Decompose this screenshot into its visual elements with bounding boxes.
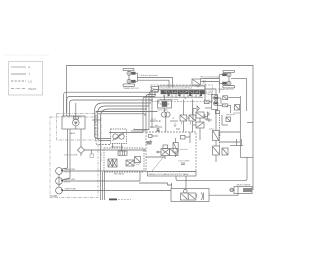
swing relief upper [223,96,241,100]
legend line PILOT [11,87,36,91]
wire pump suction lines [59,129,70,187]
svg-text:boom arm bucket swing: boom arm bucket swing [160,98,178,101]
pilot dashed vertical [219,112,221,146]
wire tank top lines to right [96,112,158,114]
pilot valve blocks mid right [180,98,196,132]
swing tilt fan supply valve box [146,132,196,176]
marks below swing motor [215,110,219,114]
pump P3 gear [56,187,77,194]
valve bank drain ticks [152,95,203,101]
swing brake valve column [196,112,220,141]
counterbalance valve RH [192,79,206,87]
legend line LS [11,79,32,83]
wire swing column [200,84,216,162]
relief valve in supply box [173,138,188,157]
wire frame top [67,66,254,158]
svg-text:HYDRAULIC CIRCUIT DIAGRAM: HYDRAULIC CIRCUIT DIAGRAM [4,53,50,57]
svg-text:P: P [29,65,31,69]
svg-text:(NO.2): (NO.2) [65,181,71,183]
legend box [9,62,43,96]
node PUMP label [51,196,58,198]
svg-text:LH travel (forward): LH travel (forward) [140,74,158,77]
wire travel straight connections [165,95,166,132]
wire bottom connections [171,157,247,195]
mid pilot labels [150,118,178,127]
pump P1 [56,168,76,175]
bank end spring [206,90,213,94]
legend line T [11,72,31,76]
wire pilot bundle right-side drops [95,103,152,200]
wire mid horizontals [92,114,172,186]
orifice pair mid [156,129,180,132]
travel straight valve [158,100,172,112]
wire LH travel to valve [138,78,173,88]
svg-text:LH travel boom arm bucket: LH travel boom arm bucket swing RH trave… [160,87,193,90]
legend line P [11,65,31,69]
pump P2 [56,178,76,185]
swing motor [212,95,235,117]
node LH travel line label [140,74,158,77]
fan supply valve block [104,144,144,176]
tank boundary dash-dot [57,114,96,141]
wire pilot bundle horizontals to left [64,91,158,117]
svg-text:(NO.1): (NO.1) [65,171,71,173]
svg-text:FAN VALVE: FAN VALVE [114,173,125,176]
wire right verticals [219,79,253,191]
svg-text:pilot: pilot [155,124,159,127]
valve bank spools [161,90,205,96]
small gauge port row [205,115,231,125]
travel motor LH [123,68,139,90]
svg-text:PILOT: PILOT [29,87,37,91]
svg-text:T NOT USED: T NOT USED [178,161,190,163]
svg-text:TRAVEL MOTOR: TRAVEL MOTOR [218,88,234,91]
plug relief on right line [233,105,240,115]
svg-text:GEAR PUMP: GEAR PUMP [65,188,77,191]
wire inner bundle to fan block [96,112,145,145]
wire RH travel to valve [201,79,220,94]
faint page title [4,53,50,57]
svg-text:OIL COOLER: OIL COOLER [64,155,78,157]
main control valve dashed boundary [151,85,213,102]
svg-text:travel straight: travel straight [158,109,169,112]
svg-text:PUMP: PUMP [51,196,58,198]
brake spring valve [209,98,230,113]
junction circles [161,112,170,117]
node RH travel line label [201,75,220,78]
select valve [230,184,253,194]
filter in tank [73,103,80,129]
not used plugs [178,161,190,165]
wire pump pressure lines [62,171,171,191]
svg-text:SWING & TILT & FAN MOTOR SUPPL: SWING & TILT & FAN MOTOR SUPPLY VALVE [149,173,190,176]
tank [62,116,85,135]
fan motor [111,129,127,149]
svg-text:main relief: main relief [180,148,188,151]
oil cooler [64,129,146,158]
wire bottom drain lines [103,172,132,200]
shuttle box [204,100,209,103]
svg-text:TRAVEL MOTOR: TRAVEL MOTOR [123,87,139,90]
pump unit boundary dash-dot [50,117,98,198]
wire pilot bundle upper corners [143,90,158,133]
boundary dash-dot mid [100,110,102,162]
valve bank label strip [152,86,206,92]
svg-text:LS: LS [29,79,32,83]
svg-text:RH travel (forward): RH travel (forward) [201,75,220,78]
svg-text:swing brk: swing brk [233,112,240,115]
anti-void check valves [193,106,211,125]
svg-text:swing: swing [209,129,214,131]
valve in supply box left [146,140,178,172]
wire bundle lower corners to fan block [109,128,152,133]
supply box small ports [147,132,191,145]
svg-text:TANK: TANK [70,132,76,135]
bottom center valve box [171,189,209,202]
travel motor RH [218,70,235,91]
lower right valve cluster [213,146,229,155]
